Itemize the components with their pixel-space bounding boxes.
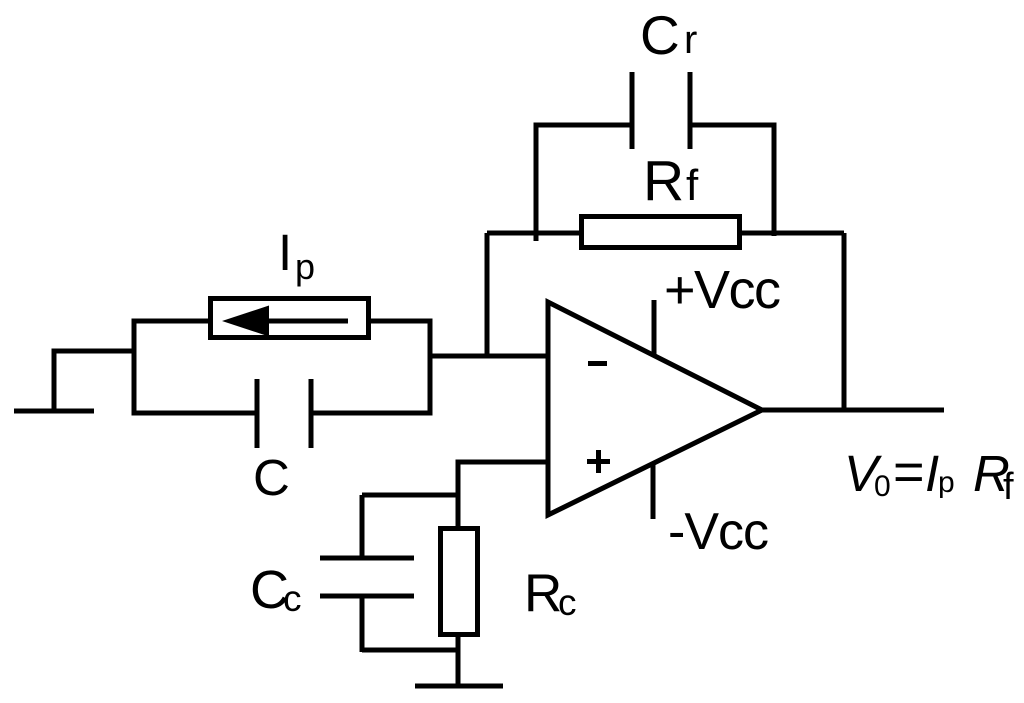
wire: loop bottom-right [311,411,430,416]
svg-text:p: p [295,246,315,287]
op-amp plus sign [587,450,610,473]
label Cr [640,4,697,66]
capacitor Cc bottom plate [320,594,414,599]
label Ip [278,224,315,287]
wire: Cc left upper vertical [360,495,365,558]
svg-text:c: c [558,582,577,623]
svg-text:C: C [253,449,290,506]
capacitor C left plate [255,379,260,448]
svg-text:R: R [643,149,684,213]
svg-text:p: p [938,466,955,499]
wire: Cr right [690,123,777,128]
svg-text:r: r [684,18,697,62]
wire: Ip top-right [371,319,432,324]
wire: Cr right vertical [772,125,777,236]
svg-text:f: f [1003,466,1014,508]
capacitor Cc top plate [320,556,414,561]
wire: Ip top-left [134,319,208,324]
svg-text:C: C [640,4,680,66]
current source Ip (box) [211,299,369,338]
op-amp minus sign [588,361,607,366]
wire: right loop vertical [428,319,433,416]
wire: Cr left vertical [534,125,539,241]
ground (bottom) [415,684,503,689]
+Vcc stub [652,300,657,355]
wire: loop bottom-left [134,411,257,416]
svg-text:-Vcc: -Vcc [668,503,768,561]
wire: Rc to ground [456,634,461,686]
label Rc [524,564,577,623]
svg-text:+Vcc: +Vcc [664,260,780,320]
wire: feedback top horizontal [487,231,844,236]
label Cc [250,560,302,620]
wire: left loop vertical [132,319,137,416]
wire: non-inverting input [456,460,549,465]
capacitor Cr right plate [688,72,693,149]
wire: inverting input [430,354,548,359]
svg-text:I: I [278,224,292,281]
svg-text:R: R [524,564,562,623]
wire: non-inverting vertical [456,462,461,528]
current source Ip arrow [222,306,348,337]
label V0 = Ip Rf [844,442,1014,508]
capacitor C right plate [309,379,314,448]
wire: Cr left [534,123,633,128]
resistor Rc (box) [441,529,478,635]
svg-text:0: 0 [874,470,891,503]
svg-text:f: f [686,161,699,210]
svg-text:=: = [893,442,925,502]
wire: feedback left vertical [485,233,490,356]
svg-text:c: c [283,578,302,619]
capacitor Cr left plate [630,72,635,149]
wire: output [760,408,944,413]
-Vcc stub [651,463,656,519]
wire: Cc top [362,493,460,498]
wire: feedback right vertical [842,233,847,410]
wire: Cc left lower vertical [360,596,365,652]
wire: Cc bottom [362,648,460,653]
label Rf [643,149,699,213]
resistor Rf (box) [582,217,740,248]
op-amp U1 [548,302,762,515]
ground (left) [14,349,136,411]
